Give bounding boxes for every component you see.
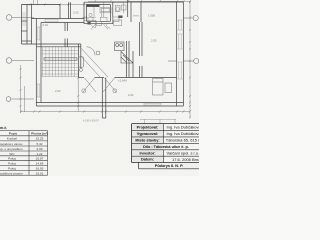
svg-text:Vypracoval:: Vypracoval: (137, 132, 158, 136)
svg-text:Ing. Iva Dubčáková: Ing. Iva Dubčáková (167, 131, 200, 136)
svg-text:+2,640: +2,640 (118, 79, 127, 83)
svg-text:16,87: 16,87 (36, 157, 44, 161)
svg-text:Dílo : Táborská ulice č. p.: Dílo : Táborská ulice č. p. (143, 145, 189, 149)
svg-text:4 100 4 500 97: 4 100 4 500 97 (83, 119, 100, 122)
svg-text:17.6. 2005 Brno: 17.6. 2005 Brno (172, 157, 199, 162)
svg-text:2,09: 2,09 (36, 147, 42, 151)
svg-text:m.č.: m.č. (0, 126, 7, 130)
svg-text:2.05: 2.05 (151, 39, 157, 43)
svg-text:1 500: 1 500 (148, 14, 155, 18)
svg-text:2.02: 2.02 (55, 89, 61, 93)
svg-text:14,69: 14,69 (36, 162, 44, 166)
svg-text:Plocha [m²]: Plocha [m²] (31, 132, 48, 136)
svg-text:Kuchyň: Kuchyň (7, 137, 18, 141)
svg-text:Popis: Popis (9, 132, 18, 136)
svg-text:Datum:: Datum: (141, 158, 154, 162)
svg-text:1,22: 1,22 (36, 152, 42, 156)
svg-text:2.03: 2.03 (73, 11, 79, 15)
svg-text:Táborská 65, 615 00 Brn: Táborská 65, 615 00 Brn (166, 138, 199, 143)
svg-text:Koupelna s vanou: Koupelna s vanou (0, 142, 23, 146)
svg-text:5,32: 5,32 (36, 142, 42, 146)
svg-text:2.04: 2.04 (128, 93, 134, 97)
svg-text:2.01: 2.01 (43, 23, 49, 27)
svg-text:19,01: 19,01 (36, 171, 44, 175)
svg-text:Varčani spol. s r.o.: Varčani spol. s r.o. (167, 151, 200, 156)
svg-text:Investor:: Investor: (139, 151, 155, 155)
svg-text:Místo stavby:: Místo stavby: (135, 138, 159, 142)
svg-text:Ing. Iva Dubčáková: Ing. Iva Dubčáková (167, 125, 200, 130)
svg-text:WC: WC (9, 152, 15, 156)
svg-text:Projektoval:: Projektoval: (137, 125, 159, 129)
svg-text:Pokoj: Pokoj (8, 166, 16, 170)
svg-text:16,95: 16,95 (36, 166, 44, 170)
svg-text:Schodišťový prostor: Schodišťový prostor (0, 171, 23, 175)
svg-text:Půdorys II. N. P.: Půdorys II. N. P. (155, 164, 183, 168)
svg-text:15,25: 15,25 (36, 137, 44, 141)
svg-text:Pokoj: Pokoj (8, 157, 16, 161)
svg-text:Pokoj: Pokoj (8, 162, 16, 166)
svg-text:Koup. s umyvadlem: Koup. s umyvadlem (0, 147, 23, 151)
